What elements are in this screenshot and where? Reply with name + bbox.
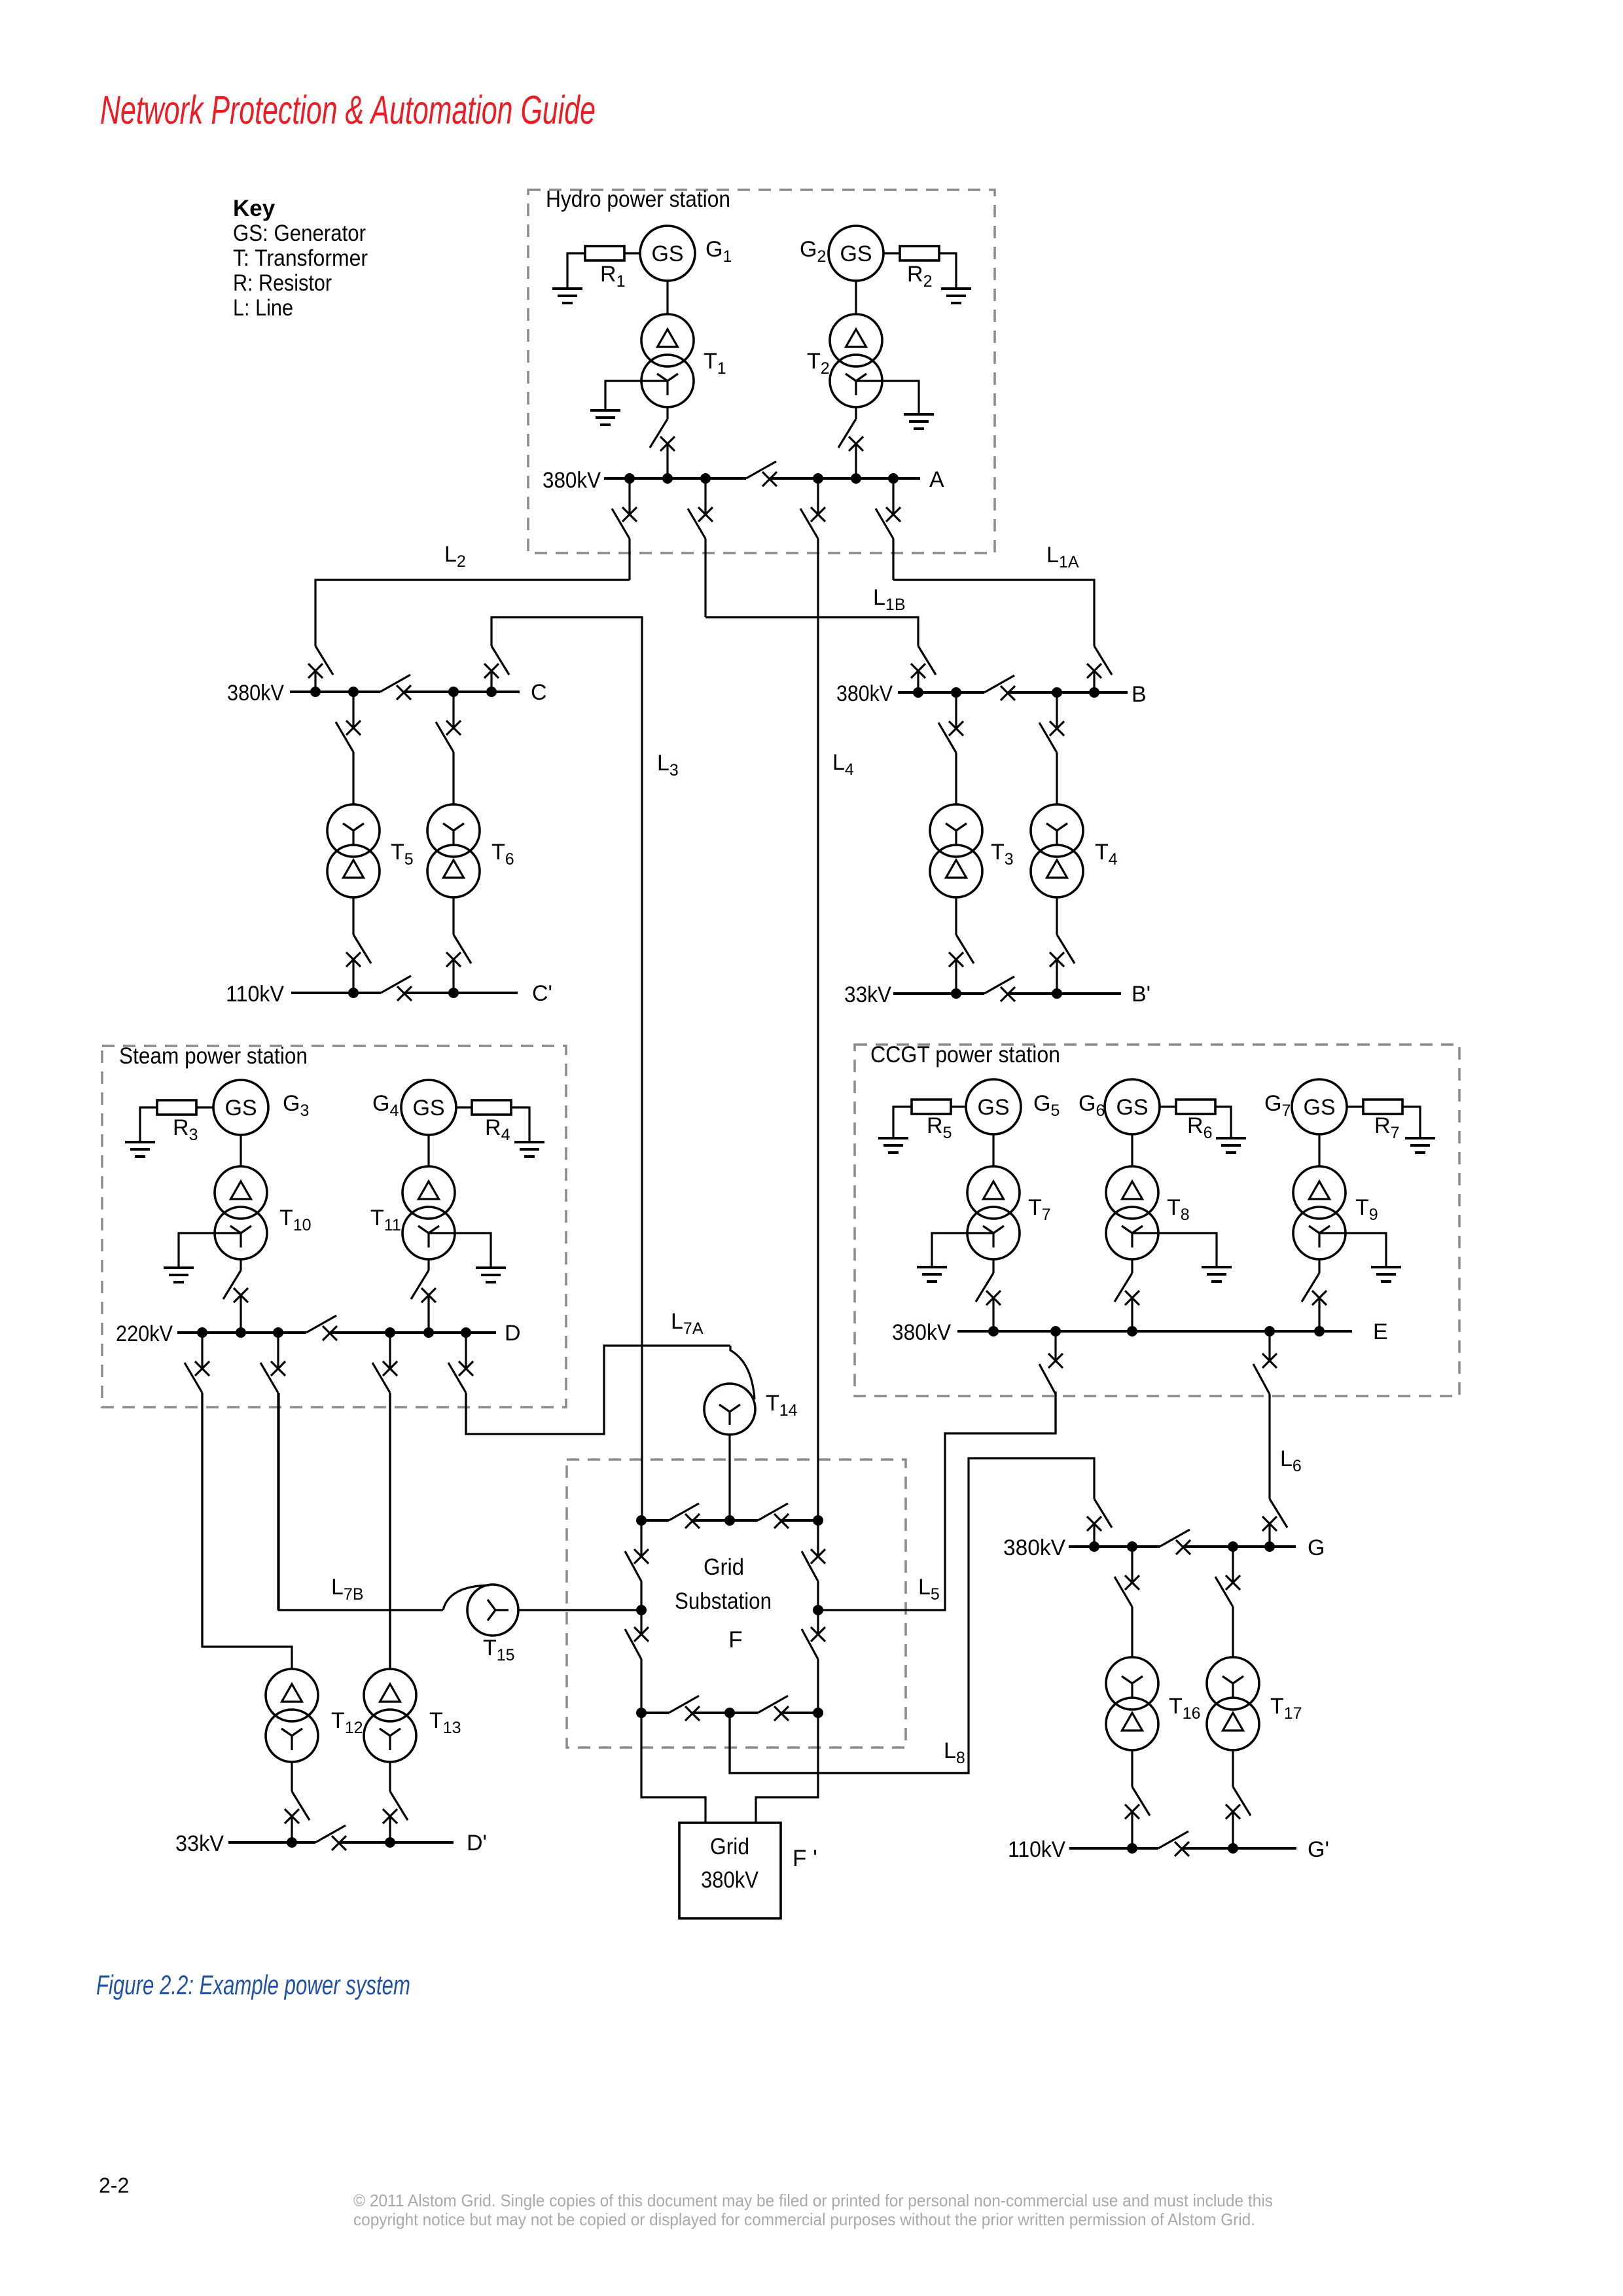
- wire: line L7A feeder continues down: [465, 1393, 467, 1434]
- wire line L1B: [705, 617, 918, 646]
- svg-text:D': D': [467, 1831, 487, 1856]
- svg-text:T11: T11: [370, 1206, 401, 1234]
- circuit breaker on T3 feeder: [949, 721, 963, 736]
- generator G5: [966, 1079, 1021, 1134]
- bus-section switch on bus D': circuit breaker X: [332, 1836, 346, 1850]
- wire T3 to isolator: [955, 897, 957, 935]
- junction on F top bus #1: [636, 1515, 647, 1526]
- isolator blade on L1A entry to bus B: [1094, 646, 1112, 675]
- circuit breaker on T2 feeder: [849, 437, 863, 451]
- wire G1 to T1: [666, 281, 668, 314]
- bus-section switch on F top bus left: circuit breaker X: [685, 1514, 700, 1528]
- circuit breaker on T12 to bus D': [285, 1809, 299, 1823]
- svg-text:380kV: 380kV: [227, 681, 284, 706]
- isolator blade on T3 feeder: [938, 723, 956, 753]
- junction on bus A #2: [662, 473, 673, 484]
- circuit breaker on T13 to bus D': [383, 1809, 397, 1823]
- wire F right upper to mid: [817, 1581, 819, 1610]
- wire G6 to T8: [1131, 1134, 1133, 1166]
- wire line L7B: [279, 1393, 443, 1610]
- wire T8 neutral earth: [1132, 1233, 1217, 1267]
- circuit breaker F right upper: [811, 1549, 825, 1564]
- isolator blade F left upper: [625, 1551, 641, 1581]
- wire T8 to isolator: [1131, 1259, 1133, 1273]
- svg-text:R2: R2: [907, 262, 932, 291]
- wire: T11 feeder to bus: [427, 1295, 429, 1333]
- junction on bus A #4: [813, 473, 823, 484]
- junction on bus E #5: [1314, 1326, 1325, 1336]
- wire T1 neutral earth: [605, 381, 668, 410]
- wire R2 to ground: [939, 253, 956, 289]
- svg-text:R: Resistor: R: Resistor: [233, 270, 332, 296]
- isolator blade on T2 feeder: [838, 419, 856, 448]
- busbar B 380kV: [898, 691, 984, 694]
- svg-text:L4: L4: [832, 750, 854, 779]
- svg-text:CCGT power station: CCGT power station: [870, 1042, 1060, 1067]
- svg-text:A: A: [929, 467, 944, 492]
- wire T7 to isolator: [992, 1259, 994, 1273]
- junction on bus D #1: [197, 1327, 207, 1338]
- wire: T9 feeder to bus: [1318, 1298, 1320, 1331]
- isolator blade on line L4: [800, 509, 818, 539]
- wire T10 to isolator: [240, 1259, 241, 1270]
- junction on bus G' #1: [1127, 1843, 1137, 1854]
- wire line L5: [823, 1391, 1056, 1610]
- svg-text:E: E: [1373, 1319, 1388, 1344]
- junction on bus D #3: [273, 1327, 283, 1338]
- svg-text:2-2: 2-2: [99, 2174, 129, 2197]
- circuit breaker on L1B entry to bus B: [911, 664, 925, 678]
- wire T7 neutral earth: [932, 1233, 993, 1267]
- circuit breaker on line L7A feeder: [459, 1361, 473, 1376]
- junction on bus C' #2: [448, 988, 459, 998]
- F left upper leg: [640, 1520, 642, 1556]
- isolator blade on T10 feeder: [223, 1270, 241, 1299]
- wire line L3 riser: [491, 617, 642, 1520]
- wire line L7A: [466, 1346, 730, 1434]
- busbar E 380kV: [957, 1330, 1352, 1333]
- isolator blade on T3 to bus B': [956, 935, 974, 963]
- wire: line L7A feeder drop from bus: [465, 1333, 467, 1369]
- bus-section switch on F top bus right: circuit breaker X: [774, 1514, 789, 1528]
- transformer T2: [830, 314, 882, 407]
- wire G4 to R4: [456, 1106, 472, 1108]
- isolator blade on T12 feeder: [185, 1363, 202, 1393]
- wire: T13 feeder drop from bus: [389, 1333, 391, 1369]
- svg-text:L3: L3: [657, 751, 679, 780]
- wire T17 to isolator: [1232, 1750, 1234, 1787]
- wire G2 to T2: [855, 281, 857, 314]
- busbar D' 33kV: [228, 1841, 315, 1844]
- transformer T15 autotransformer: [467, 1585, 518, 1636]
- transformer T16: [1106, 1657, 1158, 1750]
- svg-text:R6: R6: [1187, 1113, 1212, 1142]
- svg-text:R7: R7: [1374, 1113, 1399, 1142]
- Steam power station boundary box: [102, 1046, 566, 1407]
- svg-text:T3: T3: [991, 840, 1014, 869]
- svg-text:C': C': [532, 981, 552, 1006]
- circuit breaker on T10 feeder: [234, 1288, 248, 1302]
- resistor R1: [585, 246, 624, 260]
- circuit breaker on T7 feeder: [986, 1291, 1001, 1305]
- wire G3 to T10: [240, 1135, 241, 1166]
- transformer T8: [1106, 1166, 1158, 1259]
- isolator blade on T6 to bus C': [454, 935, 471, 963]
- bus-section switch on F bottom bus right: isolator blade: [758, 1696, 788, 1713]
- ground for T11 neutral: [476, 1268, 506, 1282]
- junction on bus A #3: [700, 473, 711, 484]
- junction on bus B' #1: [951, 988, 961, 999]
- junction on bus E #4: [1264, 1326, 1275, 1336]
- wire T10 neutral earth: [179, 1233, 241, 1268]
- junction on F bottom bus #3: [813, 1708, 823, 1718]
- isolator blade F left lower: [625, 1629, 641, 1659]
- ground for T9 neutral: [1371, 1267, 1401, 1282]
- junction on bus B' #2: [1052, 988, 1062, 999]
- bus-section switch on bus G': circuit breaker X: [1175, 1842, 1189, 1856]
- wire G6 to R6: [1160, 1105, 1176, 1107]
- wire T11 to isolator: [427, 1259, 429, 1270]
- isolator blade on T16 to bus G': [1132, 1787, 1150, 1816]
- wire: line L7B feeder continues down: [277, 1393, 279, 1610]
- isolator blade on line L7B feeder: [260, 1363, 278, 1393]
- wire T12 to isolator: [291, 1762, 293, 1791]
- wire: T16 feeder drop from bus: [1131, 1547, 1133, 1583]
- isolator blade on line L7A feeder: [448, 1363, 466, 1393]
- circuit breaker on T5 to bus C': [346, 952, 361, 967]
- circuit breaker on T8 feeder: [1125, 1291, 1139, 1305]
- wire T9 neutral earth: [1319, 1233, 1386, 1267]
- substation F internal top busbar: [641, 1519, 669, 1522]
- ground for R6: [1216, 1138, 1246, 1153]
- wire line L8 lower run: [730, 1713, 969, 1773]
- grid equivalent source box F': [679, 1823, 781, 1918]
- svg-text:T12: T12: [331, 1708, 363, 1737]
- wire line L1A: [893, 580, 1094, 646]
- bus-section switch on F bottom bus left: circuit breaker X: [685, 1706, 700, 1721]
- wire R3 to ground: [140, 1107, 157, 1142]
- circuit breaker on line L4: [811, 507, 825, 522]
- generator G6: [1105, 1079, 1160, 1134]
- bus-section switch on bus C: circuit breaker X: [397, 685, 411, 700]
- ground for R4: [514, 1142, 544, 1157]
- isolator blade on T4 to bus B': [1057, 935, 1075, 963]
- wire: L1A entry to bus B to bus: [1093, 671, 1095, 692]
- svg-text:T16: T16: [1169, 1694, 1201, 1723]
- wire F bottom bus to grid left stub: [641, 1713, 705, 1823]
- svg-text:T5: T5: [391, 840, 414, 869]
- circuit breaker on line L1A feeder: [886, 507, 901, 522]
- isolator blade on L1B entry to bus B: [918, 646, 936, 675]
- ground for T1 neutral: [590, 410, 620, 425]
- svg-text:380kV: 380kV: [701, 1867, 759, 1893]
- isolator blade on T13 feeder: [372, 1363, 390, 1393]
- isolator blade on T16 feeder: [1115, 1577, 1132, 1607]
- svg-text:G1: G1: [705, 237, 732, 266]
- transformer T7: [967, 1166, 1020, 1259]
- svg-text:L1B: L1B: [873, 585, 906, 614]
- isolator blade on T5 feeder: [336, 722, 353, 752]
- junction on bus D #5: [423, 1327, 434, 1338]
- svg-text:220kV: 220kV: [116, 1321, 173, 1346]
- wire: line L4 continues down: [817, 539, 819, 1520]
- wire: T5 to bus C' to bus: [352, 960, 354, 993]
- isolator blade on line L6: [1253, 1364, 1270, 1394]
- circuit breaker on T16 feeder: [1125, 1575, 1139, 1590]
- svg-text:380kV: 380kV: [892, 1320, 951, 1345]
- transformer T3: [930, 804, 982, 897]
- isolator blade F right upper: [802, 1551, 818, 1581]
- wire F left lower to bottom bus: [640, 1659, 642, 1713]
- svg-text:© 2011 Alstom Grid. Single cop: © 2011 Alstom Grid. Single copies of thi…: [353, 2191, 1273, 2210]
- wire: T16 feeder continues down: [1131, 1607, 1133, 1657]
- wire T1 to isolator: [666, 407, 668, 419]
- wire R5 to ground: [893, 1107, 912, 1138]
- svg-text:380kV: 380kV: [836, 681, 893, 706]
- wire: T10 feeder to bus: [240, 1295, 241, 1333]
- isolator blade on T5 to bus C': [353, 935, 371, 963]
- wire: line L5 feeder drop from bus: [1054, 1331, 1056, 1361]
- junction on F top bus #3: [813, 1515, 823, 1526]
- svg-text:B: B: [1132, 682, 1147, 707]
- svg-text:L2: L2: [444, 542, 466, 571]
- svg-text:L1A: L1A: [1046, 543, 1079, 571]
- ground for R7: [1405, 1138, 1435, 1153]
- bus-section switch on bus G': isolator blade: [1158, 1831, 1188, 1848]
- junction on F top bus #2: [724, 1515, 735, 1526]
- ground for R5: [878, 1138, 908, 1153]
- junction on bus A #6: [888, 473, 899, 484]
- ground for T8 neutral: [1202, 1267, 1232, 1282]
- bus-section switch on bus B': circuit breaker X: [1001, 987, 1015, 1001]
- wire: line L1A feeder drop from bus: [892, 478, 894, 514]
- transformer T13: [364, 1669, 416, 1762]
- wire T12 link from bus D feeder: [202, 1393, 292, 1669]
- wire: T17 feeder continues down: [1232, 1607, 1234, 1657]
- wire R6 to ground: [1215, 1107, 1231, 1138]
- circuit breaker F right lower: [811, 1627, 825, 1641]
- wire: line L2 feeder drop from bus: [628, 478, 630, 514]
- F left lower leg: [640, 1610, 642, 1634]
- junction on bus D #2: [236, 1327, 246, 1338]
- junction on bus A #5: [851, 473, 861, 484]
- wire: T12 to bus D' to bus: [291, 1816, 293, 1842]
- wire R3 to G3: [196, 1106, 213, 1108]
- F right lower leg: [817, 1610, 819, 1634]
- isolator blade on T13 to bus D': [390, 1791, 408, 1820]
- wire L7A arc into T14: [730, 1346, 755, 1399]
- wire G5 to T7: [992, 1134, 994, 1166]
- svg-text:G2: G2: [800, 237, 826, 266]
- svg-text:GS: Generator: GS: Generator: [233, 221, 366, 246]
- svg-text:R3: R3: [173, 1115, 198, 1144]
- bus-section switch on bus D': isolator blade: [315, 1825, 346, 1842]
- circuit breaker on line L6: [1262, 1354, 1277, 1368]
- circuit breaker on T6 to bus C': [446, 952, 461, 967]
- junction on F bottom bus #1: [636, 1708, 647, 1718]
- wire: T17 feeder drop from bus: [1232, 1547, 1234, 1583]
- junction on bus G #4: [1264, 1541, 1275, 1552]
- svg-text:T7: T7: [1028, 1195, 1051, 1224]
- svg-text:F: F: [728, 1627, 742, 1653]
- isolator blade on T7 feeder: [976, 1273, 993, 1302]
- junction on bus C #2: [348, 687, 359, 697]
- svg-text:G': G': [1308, 1837, 1329, 1862]
- svg-text:T10: T10: [279, 1206, 312, 1234]
- circuit breaker on T16 to bus G': [1125, 1804, 1139, 1819]
- generator G3: [213, 1080, 268, 1135]
- transformer T11: [402, 1166, 455, 1259]
- generator G2: [829, 226, 883, 281]
- transformer T4: [1031, 804, 1083, 897]
- bus-section switch on bus B: circuit breaker X: [1001, 686, 1015, 700]
- svg-text:T2: T2: [807, 349, 830, 378]
- junction on bus E #2: [1050, 1326, 1061, 1336]
- svg-text:L7B: L7B: [331, 1575, 364, 1604]
- svg-text:T4: T4: [1095, 840, 1118, 869]
- isolator blade on T8 feeder: [1115, 1273, 1132, 1302]
- bus-section switch on bus D: circuit breaker X: [323, 1326, 337, 1340]
- wire: T8 feeder to bus: [1131, 1298, 1133, 1331]
- generator G4: [401, 1080, 456, 1135]
- svg-text:L7A: L7A: [671, 1309, 704, 1338]
- wire: line L1B feeder continues down: [704, 539, 706, 617]
- svg-text:T6: T6: [491, 840, 514, 869]
- svg-text:380kV: 380kV: [543, 468, 601, 493]
- ground for R3: [125, 1142, 155, 1157]
- svg-text:D: D: [505, 1321, 521, 1346]
- circuit breaker on T1 feeder: [660, 437, 675, 451]
- transformer T12: [266, 1669, 318, 1762]
- bus-section switch on F bottom bus right: circuit breaker X: [774, 1706, 789, 1721]
- wire R1 to ground: [567, 253, 585, 289]
- wire T13 link: [389, 1393, 391, 1669]
- ground for T2 neutral: [904, 414, 934, 429]
- circuit breaker on T9 feeder: [1312, 1291, 1327, 1305]
- wire line L2: [315, 580, 630, 646]
- wire T4 to isolator: [1056, 897, 1058, 935]
- wire: T3 feeder continues down: [955, 753, 957, 804]
- wire: T12 feeder drop from bus: [201, 1333, 203, 1369]
- transformer T9: [1293, 1166, 1346, 1259]
- circuit breaker F left upper: [634, 1549, 649, 1564]
- svg-text:T1: T1: [704, 349, 726, 378]
- wire: T3 feeder drop from bus: [955, 692, 957, 728]
- isolator blade on T17 to bus G': [1233, 1787, 1251, 1816]
- isolator blade on L3 connection at bus C: [491, 646, 509, 675]
- junction on bus B #3: [1052, 687, 1062, 698]
- transformer T1: [641, 314, 694, 407]
- wire: T6 feeder continues down: [452, 752, 454, 804]
- isolator blade on T1 feeder: [650, 419, 668, 448]
- isolator blade on L6 entry to bus G: [1270, 1499, 1287, 1528]
- isolator blade on T17 feeder: [1215, 1577, 1233, 1607]
- junction on bus B #2: [951, 687, 961, 698]
- circuit breaker on line L5 feeder: [1048, 1354, 1063, 1368]
- svg-text:R4: R4: [485, 1115, 510, 1144]
- Grid Substation F boundary box: [567, 1460, 906, 1748]
- svg-text:Figure 2.2: Example power syst: Figure 2.2: Example power system: [96, 1969, 410, 2000]
- Hydro power station boundary box: [528, 190, 995, 553]
- wire F bottom bus to grid right stub: [756, 1713, 818, 1823]
- svg-text:Grid: Grid: [704, 1554, 744, 1580]
- junction on bus B #1: [913, 687, 923, 698]
- svg-text:G3: G3: [283, 1091, 309, 1120]
- isolator blade on T4 feeder: [1039, 723, 1057, 753]
- wire: T1 feeder to bus: [666, 444, 668, 478]
- junction on bus C #3: [448, 687, 459, 697]
- isolator blade on line L2 feeder: [612, 509, 630, 539]
- wire: line L6 continues down: [1268, 1394, 1270, 1499]
- junction on bus E #1: [988, 1326, 999, 1336]
- busbar B' 33kV: [893, 992, 984, 995]
- svg-text:Network Protection & Automatio: Network Protection & Automation Guide: [100, 88, 596, 132]
- svg-text:T9: T9: [1355, 1195, 1378, 1224]
- wire T14 to substation top bus: [728, 1435, 730, 1520]
- busbar D 220kV: [177, 1331, 306, 1334]
- wire T5 to isolator: [352, 897, 354, 935]
- wire: T12 feeder continues down: [201, 1393, 203, 1647]
- svg-text:L6: L6: [1280, 1446, 1302, 1475]
- circuit breaker on T12 feeder: [195, 1361, 209, 1376]
- wire G4 to T11: [427, 1135, 429, 1166]
- bus-section switch on bus A: isolator blade: [746, 461, 776, 478]
- wire: T16 to bus G' to bus: [1131, 1812, 1133, 1848]
- bus-section switch on F bottom bus left: isolator blade: [669, 1696, 699, 1713]
- svg-text:L: Line: L: Line: [233, 295, 293, 321]
- svg-text:copyright notice but may not b: copyright notice but may not be copied o…: [353, 2210, 1255, 2229]
- svg-text:T17: T17: [1270, 1694, 1302, 1723]
- wire: T5 feeder drop from bus: [352, 692, 354, 728]
- wire: line L4 drop from bus: [817, 478, 819, 514]
- circuit breaker on L8 entry to bus G: [1087, 1516, 1101, 1531]
- bus-section switch on F top bus left: isolator blade: [669, 1503, 699, 1520]
- circuit breaker on T3 to bus B': [949, 952, 963, 967]
- circuit breaker F left lower: [634, 1627, 649, 1641]
- ground for R1: [552, 289, 582, 303]
- isolator blade on T6 feeder: [436, 722, 454, 752]
- wire: T2 feeder to bus: [855, 444, 857, 478]
- circuit breaker on line L2 feeder: [622, 507, 637, 522]
- transformer T10: [215, 1166, 267, 1259]
- wire F right lower to bottom bus: [817, 1659, 819, 1713]
- wire T2 neutral earth: [856, 381, 919, 414]
- junction on bus E #3: [1127, 1326, 1137, 1336]
- junction on bus D #4: [385, 1327, 395, 1338]
- wire T9 to isolator: [1318, 1259, 1320, 1273]
- isolator blade on line L1A feeder: [876, 509, 893, 539]
- svg-text:L8: L8: [944, 1738, 965, 1767]
- svg-text:G4: G4: [372, 1091, 399, 1120]
- bus-section switch on bus B': isolator blade: [984, 977, 1014, 994]
- wire: T4 feeder drop from bus: [1056, 692, 1058, 728]
- wire T2 to isolator: [855, 407, 857, 419]
- svg-text:110kV: 110kV: [1008, 1837, 1065, 1862]
- junction F mid level left: [636, 1605, 647, 1615]
- wire R5 to G5: [951, 1105, 966, 1107]
- wire: line L1B feeder drop from bus: [704, 478, 706, 514]
- isolator blade on L2 entry to bus C: [315, 646, 333, 675]
- wire: line L6 drop from bus: [1268, 1331, 1270, 1361]
- isolator blade on line L5 feeder: [1039, 1364, 1056, 1394]
- wire L7B arc into T15: [443, 1585, 490, 1610]
- wire R4 to ground: [511, 1107, 529, 1142]
- bus-section switch on bus C': isolator blade: [381, 976, 411, 993]
- wire: line L1A feeder continues down: [892, 539, 894, 580]
- bus-section switch on bus C': circuit breaker X: [397, 986, 412, 1001]
- wire: T4 to bus B' to bus: [1056, 960, 1058, 994]
- busbar C 380kV: [290, 691, 380, 693]
